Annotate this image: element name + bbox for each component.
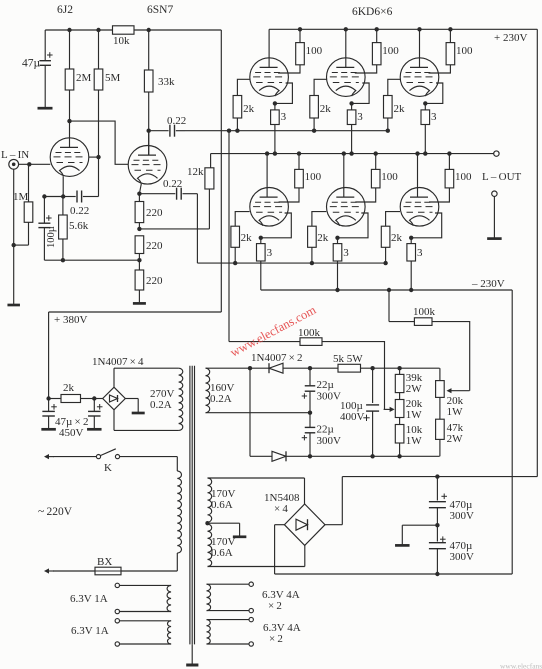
tube V4 6KD6 bottom (250, 188, 289, 227)
wire cathode gnd rail (44, 259, 139, 261)
svg-text:100: 100 (305, 171, 322, 183)
wire 6J2 plate (69, 121, 71, 147)
svg-text:0.22: 0.22 (167, 115, 186, 127)
svg-text:3: 3 (431, 111, 437, 123)
wire V4 grid (235, 212, 249, 227)
wire V6 plate (417, 154, 419, 198)
svg-text:1N4007 × 4: 1N4007 × 4 (92, 356, 144, 368)
resistor 2M (65, 30, 91, 121)
label +230V (494, 32, 527, 44)
ground core (186, 664, 198, 667)
resistor 220 a (135, 194, 163, 229)
label 6KD6x6 (352, 6, 393, 18)
node 6J2 plate (67, 119, 71, 123)
wire 100k2 to wiper (322, 342, 385, 410)
svg-text:~ 220V: ~ 220V (38, 506, 73, 518)
ground centertap (233, 535, 247, 538)
node chain left top (397, 366, 401, 370)
wire 270V loop top (114, 367, 179, 369)
resistor 12k (187, 154, 214, 229)
wire 6J2 cathode (62, 176, 64, 196)
node 5.6k bottom (61, 258, 65, 262)
svg-text:3: 3 (357, 111, 363, 123)
wire 270V loop bottom (114, 429, 179, 431)
winding 160V (206, 368, 210, 413)
ground 47u a (41, 428, 56, 431)
wire 470u mid gnd (402, 525, 437, 544)
svg-text:300V: 300V (317, 435, 342, 447)
wire -230V rail (261, 289, 512, 291)
label 170V 0.6A b (211, 536, 236, 559)
winding 6.3V1A b (120, 621, 172, 644)
wire bridge2 bottom (304, 545, 306, 566)
label -230V (471, 278, 505, 290)
wire V2 plate (345, 29, 347, 67)
wire V6 beam tab (411, 213, 442, 238)
svg-text:12k: 12k (187, 166, 204, 178)
wire HV+ line (342, 476, 537, 478)
node 100 V6 rail (447, 151, 451, 155)
svg-text:2W: 2W (447, 433, 464, 445)
wire V5 grid (312, 212, 326, 227)
label 6.3V4A b (263, 622, 301, 645)
ground 470u (395, 544, 410, 547)
wire V3 plate (419, 29, 421, 67)
wire 170V top wire (208, 477, 305, 479)
svg-text:0.22: 0.22 (70, 205, 89, 217)
svg-text:220: 220 (146, 207, 163, 219)
wire to bridge1 (94, 398, 103, 400)
svg-text:220: 220 (146, 275, 163, 287)
node 100 V2 rail (375, 27, 379, 31)
terminal 6.3V1A a2 (115, 609, 119, 613)
svg-text:– 230V: – 230V (471, 278, 505, 290)
arrow mains top (44, 454, 54, 459)
switch K (96, 449, 119, 474)
node V6 cathode (409, 236, 413, 240)
wire A down (249, 368, 251, 456)
wire V6 grid (386, 212, 400, 227)
svg-text:300V: 300V (450, 510, 475, 522)
svg-text:+ 380V: + 380V (54, 314, 87, 326)
svg-text:2k: 2k (243, 103, 255, 115)
wire feedback (139, 228, 209, 230)
resistor 220 c (135, 260, 163, 302)
terminal 6.3V4A b2 (249, 642, 253, 646)
node 2k V6 rail (383, 261, 387, 265)
node 6SN7 plate (147, 129, 151, 133)
node +380V bridge (46, 396, 50, 400)
node V1 cathode (273, 101, 277, 105)
resistor 10k 1W (395, 418, 423, 457)
label 160V 0.2A (210, 382, 235, 405)
wire mains bottom (53, 570, 95, 572)
node doubler B (308, 366, 312, 370)
svg-text:× 2: × 2 (269, 633, 283, 645)
svg-text:2k: 2k (320, 103, 332, 115)
capacitor 22u a (302, 368, 341, 413)
node doubler A (248, 366, 252, 370)
node V3 cathode (423, 101, 427, 105)
svg-text:5M: 5M (105, 72, 121, 84)
wire V5 plate (343, 154, 345, 198)
winding 6.3V4A b (207, 620, 250, 644)
resistor 100 V2 screen (355, 29, 400, 73)
tube V2 6KD6 top (327, 58, 366, 97)
node 2k V4 rail (233, 261, 237, 265)
svg-text:+ 230V: + 230V (494, 32, 527, 44)
terminal 6.3V4A b1 (249, 617, 253, 621)
svg-text:6KD6×6: 6KD6×6 (352, 6, 393, 18)
wire top-left rail (45, 29, 221, 31)
label 6.3V4A a (262, 589, 300, 612)
resistor 20k 1W pot-left (395, 393, 423, 421)
resistor 100 V5 screen (355, 154, 398, 202)
svg-text:6.3V 1A: 6.3V 1A (71, 625, 109, 637)
wire bottom grid rail (197, 262, 385, 264)
capacitor 47ux2 a (42, 399, 56, 429)
node 100 V5 rail (374, 151, 378, 155)
wire to bottom grid rail (196, 194, 198, 263)
node 100u bottom (370, 454, 374, 458)
resistor 2k V2 (310, 96, 332, 131)
node 3 V1 rail (273, 151, 277, 155)
svg-text:100: 100 (306, 45, 323, 57)
resistor 3 V3 (421, 103, 437, 153)
tube V3 6KD6 top (400, 58, 439, 97)
wire jack shield (13, 169, 15, 304)
node grid rail tap (227, 129, 231, 133)
svg-text:22µ: 22µ (317, 379, 334, 391)
svg-text:400V: 400V (340, 411, 365, 423)
resistor 47k 2W (436, 397, 464, 456)
node 47u2 top (92, 396, 96, 400)
wire doubler top (283, 367, 338, 369)
svg-text:100k: 100k (413, 306, 436, 318)
resistor 20k 1W pot-right (436, 368, 464, 418)
wire V4 plate (266, 154, 268, 198)
resistor 100 V6 screen (429, 154, 472, 202)
svg-text:6.3V 1A: 6.3V 1A (70, 593, 108, 605)
svg-text:1M: 1M (13, 191, 29, 203)
node chain left bottom (397, 454, 401, 458)
node 6J2 cathode (61, 194, 65, 198)
wire K to primary (120, 456, 178, 458)
resistor 100k lower (229, 327, 322, 345)
label 6SN7 (147, 4, 173, 16)
svg-text:22µ: 22µ (317, 424, 334, 436)
wire V3 beam tab (425, 83, 443, 103)
node 100k1 rail (387, 288, 391, 292)
ground 220 (133, 302, 146, 305)
node 470u top (435, 474, 439, 478)
wire -230V edge drop (511, 290, 513, 574)
wire bridge2 left (275, 525, 285, 574)
svg-text:33k: 33k (158, 76, 175, 88)
wire V1 plate (268, 29, 270, 67)
ground bridge1 (132, 412, 145, 415)
resistor 5M (94, 30, 120, 197)
node 2k V3 rail (386, 129, 390, 133)
winding 270V (179, 368, 183, 430)
svg-text:1N4007 × 2: 1N4007 × 2 (251, 352, 303, 364)
wire 6SN7 cathode (139, 184, 141, 194)
svg-text:220: 220 (146, 240, 163, 252)
label 6.3V1A a (70, 593, 108, 605)
wire bias drop (228, 131, 230, 342)
node 470u mid (435, 523, 439, 527)
capacitor 470u b (429, 525, 474, 574)
wire centertap (208, 523, 240, 534)
node V4 plate rail (265, 151, 269, 155)
node V5 plate rail (342, 151, 346, 155)
wire V3 grid (388, 79, 401, 95)
svg-text:3: 3 (417, 247, 423, 259)
capacitor 100u (38, 197, 63, 261)
svg-text:1W: 1W (406, 435, 423, 447)
wire 6SN7 plate (148, 131, 150, 156)
wire bridge1 right (125, 399, 138, 410)
svg-text:3: 3 (267, 247, 273, 259)
svg-text:100: 100 (455, 171, 472, 183)
label +380V (54, 314, 87, 326)
wire doubler bottom (286, 455, 440, 457)
winding 170V a (208, 478, 212, 522)
wire primary bottom (121, 553, 177, 571)
wire mains top (53, 456, 97, 458)
svg-text:0.2A: 0.2A (150, 399, 172, 411)
svg-text:× 2: × 2 (268, 600, 282, 612)
wire 6J2 screen tab (89, 156, 99, 158)
node 5M top (96, 28, 100, 32)
capacitor 47u input (22, 30, 53, 107)
wire coupling 6J2-6SN7 (70, 121, 129, 164)
wire +230V edge drop (536, 29, 538, 476)
svg-text:2M: 2M (76, 72, 92, 84)
svg-text:6J2: 6J2 (57, 4, 73, 16)
node 2k V5 rail (310, 261, 314, 265)
wire +230V rail (269, 28, 537, 30)
node 100 V3 rail (448, 27, 452, 31)
capacitor 0.22 drive-top (149, 115, 187, 137)
resistor 2k V5 (308, 226, 329, 263)
label 1N4007x4 (92, 356, 144, 368)
capacitor 100u psu (340, 368, 379, 456)
node V4 cathode (259, 236, 263, 240)
wire +380V rail (49, 311, 222, 313)
resistor 3 V4 (257, 238, 273, 290)
node 33k top (147, 28, 151, 32)
svg-text:BX: BX (97, 556, 112, 568)
svg-text:1W: 1W (406, 409, 423, 421)
svg-text:300V: 300V (450, 551, 475, 563)
winding 170V b (208, 524, 212, 566)
svg-text:300V: 300V (317, 391, 342, 403)
capacitor 47ux2 b (88, 399, 102, 429)
arrow mains bottom (44, 568, 54, 573)
wire V2 beam tab (352, 83, 370, 103)
label L-OUT (482, 171, 522, 183)
arrow wiper right pot (447, 388, 470, 393)
node V2 cathode (349, 101, 353, 105)
capacitor 0.22 screen (63, 191, 98, 218)
winding 6.3V4A a (207, 584, 250, 610)
label 1N4007x2 (251, 352, 303, 364)
resistor 100 V4 screen (279, 154, 322, 202)
svg-text:47µ: 47µ (22, 58, 41, 70)
svg-text:2k: 2k (394, 103, 406, 115)
svg-text:0.6A: 0.6A (211, 547, 233, 559)
svg-text:3: 3 (343, 247, 349, 259)
node 3 V2 rail (349, 151, 353, 155)
node 2k V2 rail (312, 129, 316, 133)
wire 5k out rail (361, 367, 440, 369)
wire core gnd (191, 644, 193, 664)
svg-text:100: 100 (381, 171, 398, 183)
svg-text:2k: 2k (63, 382, 75, 394)
terminal 6.3V4A a2 (249, 608, 253, 612)
svg-text:100k: 100k (298, 327, 321, 339)
tube 6J2 (50, 138, 89, 177)
fuse BX (95, 556, 121, 575)
svg-text:2k: 2k (317, 232, 329, 244)
resistor 33k (144, 30, 175, 156)
wire top grid rail (185, 130, 388, 132)
resistor 2k V4 (231, 226, 252, 263)
wire doubler bottom left (250, 455, 272, 457)
node 220bc (137, 258, 141, 262)
wire V4 beam tab (261, 213, 292, 238)
terminal 6.3V1A b2 (115, 642, 119, 646)
resistor 3 V5 (333, 238, 349, 290)
resistor 5k 5W (333, 353, 363, 372)
svg-text:0.6A: 0.6A (211, 499, 233, 511)
node shield-1M (12, 243, 16, 247)
node 2M top (67, 28, 71, 32)
resistor 100 V1 screen (278, 29, 323, 73)
resistor 1M (13, 164, 33, 245)
tube V6 6KD6 bottom (400, 188, 439, 227)
label 1N5408 (264, 492, 300, 515)
tube V5 6KD6 bottom (327, 188, 366, 227)
node 3 V3 rail (423, 151, 427, 155)
resistor 2k V6 (381, 226, 402, 263)
capacitor 470u a (429, 477, 474, 526)
node V6 plate rail (415, 151, 419, 155)
svg-text:2k: 2k (241, 232, 253, 244)
resistor 3 V6 (407, 238, 423, 290)
capacitor 22u b (302, 413, 341, 457)
svg-text:0.2A: 0.2A (210, 393, 232, 405)
label 47ux2 450V (55, 416, 88, 439)
ground L-OUT (487, 237, 502, 240)
terminal 6.3V1A b1 (115, 619, 119, 623)
node 220ab (137, 227, 141, 231)
terminal L-OUT bottom (492, 191, 497, 196)
ground 47u (38, 107, 53, 110)
svg-text:5k 5W: 5k 5W (333, 353, 363, 365)
svg-text:3: 3 (281, 111, 287, 123)
svg-text:0.22: 0.22 (163, 178, 182, 190)
tube V1 6KD6 top (250, 58, 289, 97)
node V3 plate rail (417, 27, 421, 31)
node input (27, 162, 31, 166)
wire +380V to bridge (48, 312, 50, 399)
bridge 1N4007x4 (103, 387, 126, 410)
node 2k V1 rail (235, 129, 239, 133)
svg-text:2W: 2W (406, 383, 423, 395)
wire V5 beam tab (338, 213, 369, 238)
node 3 V6 rail (409, 288, 413, 292)
label L-IN (1, 149, 29, 161)
wire V2 grid (314, 79, 327, 95)
svg-text:100: 100 (382, 45, 399, 57)
svg-text:6SN7: 6SN7 (147, 4, 173, 16)
wire V1 grid (237, 79, 250, 95)
watermark elecfans (228, 303, 319, 360)
node 3 V5 rail (335, 288, 339, 292)
svg-text:450V: 450V (59, 427, 84, 439)
node 100 V4 rail (297, 151, 301, 155)
wire input (19, 163, 51, 165)
resistor 2k psu (49, 382, 95, 403)
wire centertap gnd (239, 534, 241, 536)
diode 1N4007 top (269, 363, 283, 373)
resistor 5.6k (59, 197, 89, 261)
diode 1N4007 bottom (272, 451, 286, 461)
label 6.3V1A b (71, 625, 109, 637)
svg-text:1W: 1W (447, 406, 464, 418)
transformer core (190, 366, 195, 645)
label 270V 0.2A (150, 388, 175, 411)
svg-text:5.6k: 5.6k (69, 220, 89, 232)
svg-text:www.elecfans: www.elecfans (500, 662, 542, 669)
svg-text:100µ: 100µ (46, 226, 57, 248)
bridge 1N5408x4 (284, 504, 325, 545)
node V2 plate rail (344, 27, 348, 31)
label ~220V (38, 506, 73, 518)
resistor 3 V2 (347, 103, 363, 153)
capacitor 0.22 drive-bot (139, 178, 197, 200)
wire V1 beam tab (275, 83, 293, 103)
resistor 2k V3 (384, 96, 406, 131)
wire L-OUT gnd (493, 196, 495, 237)
terminal 6.3V4A a1 (249, 582, 253, 586)
wire bridge1 bottom (113, 410, 115, 431)
wire bridge1 gnd2 (137, 409, 139, 412)
winding 6.3V1A a (120, 585, 172, 611)
wire bridge2 top (304, 478, 306, 504)
resistor 100k upper (389, 290, 470, 391)
svg-text:10k: 10k (113, 35, 130, 47)
node 6J2 screen (96, 155, 100, 159)
svg-text:× 4: × 4 (274, 503, 288, 515)
resistor 100 V3 screen (429, 29, 474, 73)
node 470u bottom (435, 572, 439, 576)
terminal 6.3V1A a1 (115, 583, 119, 587)
jack L-IN (9, 159, 19, 169)
resistor 220 b (135, 236, 163, 260)
node 170V centertap (205, 521, 209, 525)
node V5 cathode (335, 236, 339, 240)
node 6SN7 cathode (137, 192, 141, 196)
svg-text:2k: 2k (391, 232, 403, 244)
node 100u branch (42, 194, 46, 198)
wire +380V drop (220, 30, 222, 312)
resistor 10k (113, 26, 135, 47)
node 100 V1 rail (298, 27, 302, 31)
wire D to winding (206, 412, 311, 414)
